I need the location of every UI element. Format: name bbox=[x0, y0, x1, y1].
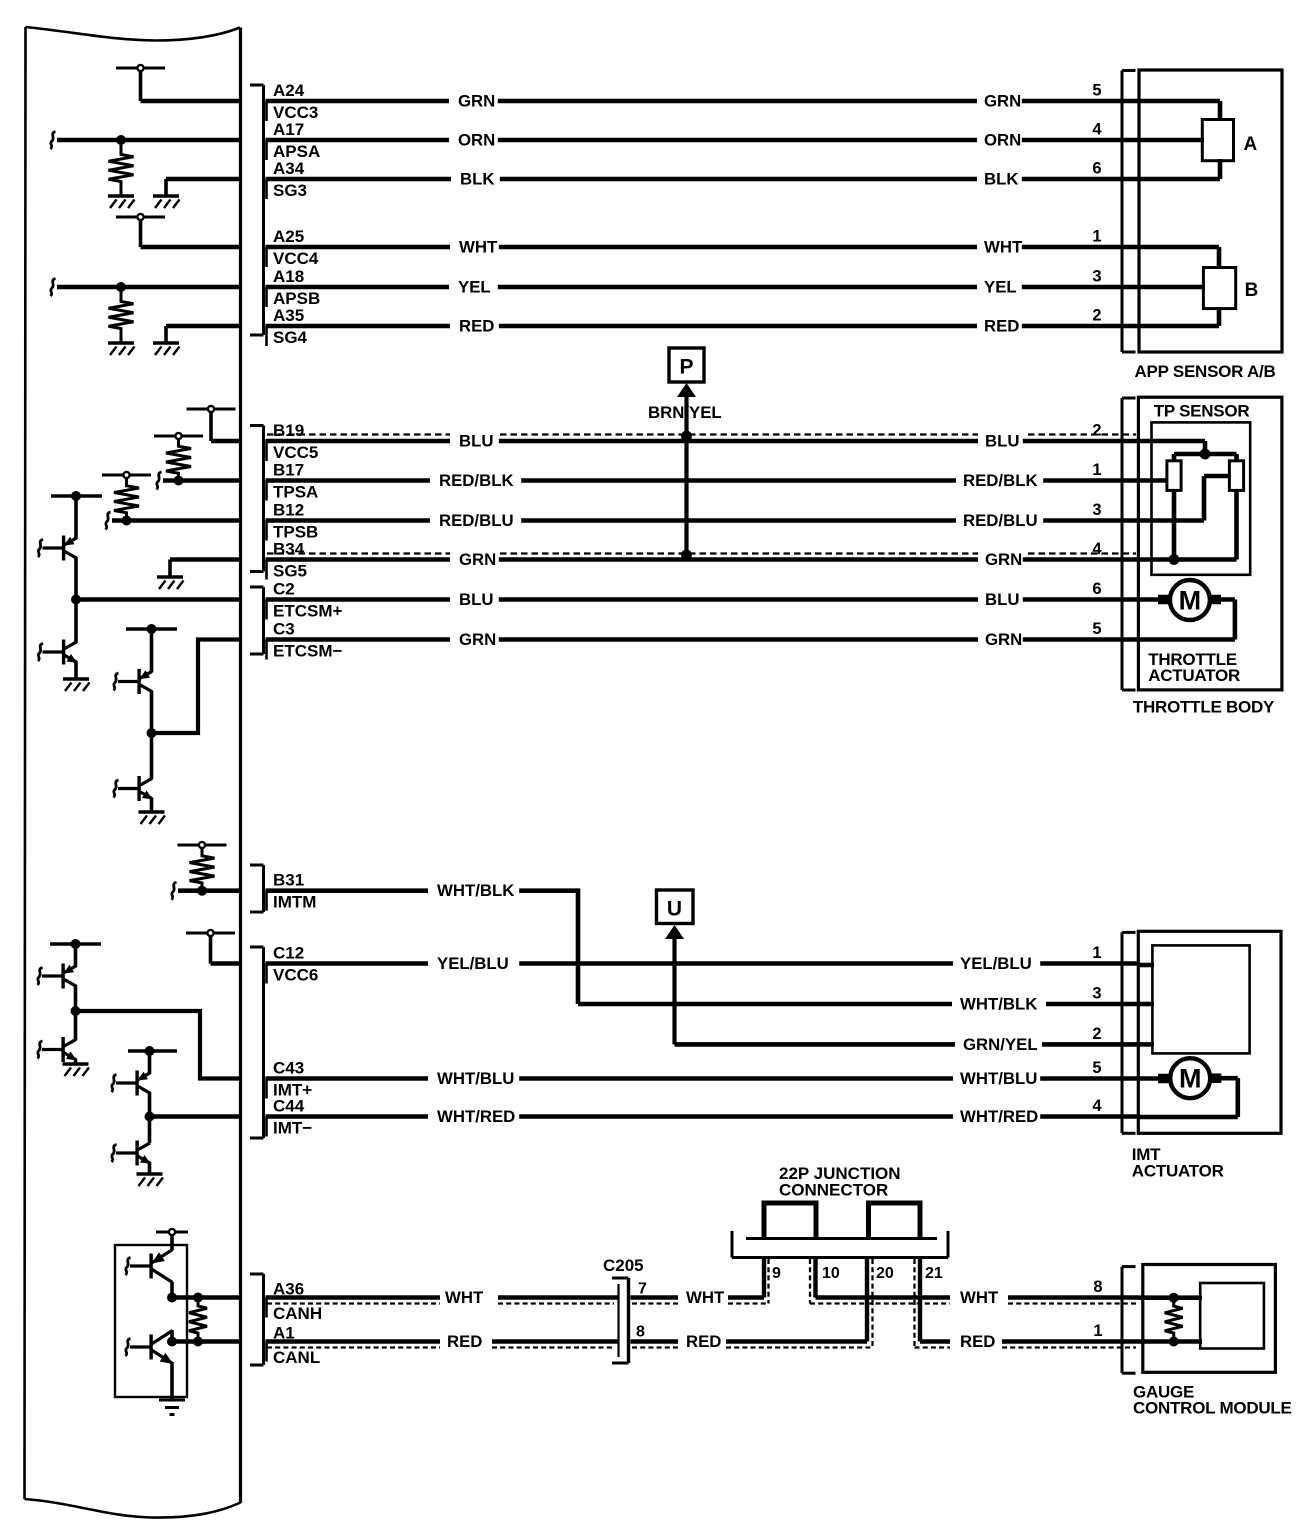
svg-text:4: 4 bbox=[1092, 540, 1102, 558]
svg-text:RED: RED bbox=[686, 1332, 721, 1351]
IMT motor M bbox=[1138, 1058, 1238, 1117]
gauge control module box bbox=[1143, 1265, 1276, 1373]
ECM pin bracket B31 bbox=[250, 865, 264, 912]
svg-text:WHT/BLU: WHT/BLU bbox=[960, 1069, 1037, 1088]
ground (APSA resistor) bbox=[108, 196, 135, 208]
svg-text:RED: RED bbox=[447, 1332, 482, 1351]
ECM trace TPSB bbox=[112, 518, 242, 523]
wire C3/ETCSM− GRN bbox=[266, 620, 1139, 661]
junction dot CANL bbox=[167, 1337, 177, 1347]
ECM trace CANH bbox=[172, 1295, 242, 1300]
junction pin 10 bbox=[816, 1258, 840, 1298]
svg-text:10: 10 bbox=[822, 1265, 840, 1282]
transistor Q5 (IMT+ high side) bbox=[38, 944, 77, 989]
caption IMT ACTUATOR bbox=[1132, 1145, 1224, 1181]
svg-text:BRN/YEL: BRN/YEL bbox=[648, 403, 722, 422]
junction dot IMTM bbox=[197, 886, 207, 896]
svg-text:A25: A25 bbox=[273, 227, 304, 246]
junction dot rail/Q5 bbox=[71, 939, 81, 949]
ECM trace APSB bbox=[57, 285, 242, 290]
junction dot ETCSM- node bbox=[147, 728, 157, 738]
svg-text:VCC6: VCC6 bbox=[273, 966, 318, 985]
svg-text:SG3: SG3 bbox=[273, 181, 307, 200]
resistor CAN terminator bbox=[189, 1298, 207, 1342]
svg-text:GRN: GRN bbox=[985, 630, 1022, 649]
svg-text:APP SENSOR A/B: APP SENSOR A/B bbox=[1135, 362, 1276, 381]
svg-text:IMT−: IMT− bbox=[273, 1119, 312, 1138]
ground (SG5) bbox=[157, 577, 184, 589]
transistor Q7 (IMT- high side) bbox=[112, 1051, 151, 1096]
resistor APSB pull-down bbox=[109, 287, 134, 343]
svg-text:A: A bbox=[1244, 134, 1258, 155]
svg-text:C205: C205 bbox=[603, 1256, 644, 1275]
transistor Q1 (ETCSM+ high side) bbox=[38, 496, 77, 561]
supply symbol (TPSB pull-up) bbox=[102, 472, 151, 478]
wire A17/APSA ORN bbox=[266, 120, 1139, 161]
label B bbox=[1245, 280, 1259, 301]
junction dot TPSB bbox=[122, 516, 132, 526]
wire B34/SG5 GRN bbox=[266, 540, 1139, 581]
svg-text:20: 20 bbox=[876, 1265, 894, 1282]
svg-text:RED: RED bbox=[960, 1332, 995, 1351]
hook TPSB lead bbox=[106, 512, 111, 530]
connector bracket (gauge module) bbox=[1122, 1267, 1136, 1374]
svg-text:M: M bbox=[1179, 1064, 1202, 1094]
junction pin 20 bbox=[867, 1258, 894, 1342]
svg-text:YEL/BLU: YEL/BLU bbox=[437, 954, 509, 973]
wire B17/TPSA RED/BLK bbox=[266, 461, 1139, 502]
junction dot TP return bbox=[1169, 554, 1180, 565]
arrow + BRN/YEL drain wire to P bbox=[648, 383, 722, 555]
APP sensor A/B box bbox=[1139, 70, 1282, 352]
wire A35/SG4 RED bbox=[266, 306, 1139, 347]
svg-text:ORN: ORN bbox=[984, 131, 1021, 150]
ECM pin bracket B19-SG5 bbox=[250, 426, 264, 572]
svg-text:WHT: WHT bbox=[984, 238, 1023, 257]
connector bracket (IMT actuator) bbox=[1122, 932, 1136, 1133]
svg-text:RED/BLK: RED/BLK bbox=[439, 471, 514, 490]
wires to sensor B bbox=[1138, 247, 1219, 326]
svg-text:BLU: BLU bbox=[459, 590, 494, 609]
transistor Q4 (ETCSM- low side) bbox=[114, 733, 153, 801]
ECM trace TPSA bbox=[163, 478, 242, 483]
ECM trace SG4 to ground bbox=[166, 326, 242, 343]
supply symbol (VCC3 pull-up rail) bbox=[116, 65, 165, 101]
svg-text:B: B bbox=[1245, 280, 1259, 301]
svg-text:4: 4 bbox=[1092, 121, 1102, 139]
svg-text:WHT/RED: WHT/RED bbox=[960, 1107, 1038, 1126]
ECM trace APSA bbox=[57, 138, 242, 143]
supply symbol (VCC5 rail) bbox=[187, 406, 236, 441]
junction dot CANH/terminator bbox=[193, 1293, 203, 1303]
junction dot gauge CANL bbox=[1169, 1337, 1179, 1347]
svg-text:5: 5 bbox=[1092, 82, 1101, 100]
wires into IMT block bbox=[1138, 965, 1154, 1044]
gauge CANH wire bbox=[1138, 1295, 1202, 1300]
svg-text:8: 8 bbox=[636, 1324, 645, 1341]
ground (Q6) bbox=[63, 1064, 90, 1076]
svg-text:A1: A1 bbox=[273, 1324, 295, 1343]
svg-text:YEL: YEL bbox=[458, 278, 491, 297]
ECM/PCM box (left, continued) bbox=[25, 27, 241, 1518]
resistor IMTM pull-up bbox=[190, 848, 215, 891]
svg-text:ETCSM−: ETCSM− bbox=[273, 642, 343, 661]
ground point box P bbox=[669, 348, 704, 382]
svg-text:RED: RED bbox=[459, 317, 494, 336]
ground (Q4) bbox=[139, 812, 166, 824]
svg-text:WHT/BLK: WHT/BLK bbox=[960, 995, 1037, 1014]
transistor Q3 (ETCSM- high side) bbox=[114, 629, 153, 694]
svg-text:1: 1 bbox=[1092, 944, 1101, 962]
svg-text:YEL/BLU: YEL/BLU bbox=[960, 954, 1032, 973]
wire Q2 emitter to ground bbox=[74, 661, 78, 679]
wire Q1 collector to ETCSM+ node bbox=[74, 557, 78, 600]
caption GAUGE CONTROL MODULE bbox=[1133, 1383, 1292, 1418]
svg-text:1: 1 bbox=[1093, 1322, 1102, 1340]
svg-text:BLU: BLU bbox=[985, 432, 1020, 451]
wire Q3 collector to ETCSM- node bbox=[150, 691, 154, 733]
svg-text:2: 2 bbox=[1092, 422, 1101, 440]
wire A36/CANH WHT bbox=[266, 1278, 1139, 1323]
wire C2/ETCSM+ BLU bbox=[266, 580, 1139, 621]
transistor Q2 (ETCSM+ low side) bbox=[38, 600, 77, 665]
junction dot gauge CANH bbox=[1169, 1293, 1179, 1303]
supply symbol (VCC6 rail) bbox=[186, 930, 235, 964]
ground (SG3) bbox=[153, 196, 180, 208]
ECM trace SG5 to ground bbox=[170, 560, 242, 578]
supply symbol (TPSA pull-up) bbox=[154, 433, 203, 439]
connector bracket (APP sensor) bbox=[1122, 71, 1136, 353]
hook IMTM lead bbox=[172, 882, 177, 900]
svg-text:A34: A34 bbox=[273, 159, 305, 178]
junction dot CANH bbox=[167, 1293, 177, 1303]
junction dot BRN/YEL on B19 shield bbox=[681, 431, 692, 442]
svg-text:6: 6 bbox=[1092, 580, 1101, 598]
TPSA wire into element 1 bbox=[1138, 478, 1168, 483]
svg-text:WHT/RED: WHT/RED bbox=[437, 1107, 515, 1126]
svg-text:7: 7 bbox=[638, 1281, 647, 1298]
svg-text:VCC5: VCC5 bbox=[273, 443, 318, 462]
resistor TPSA pull-up bbox=[166, 439, 191, 481]
svg-text:A36: A36 bbox=[273, 1280, 304, 1299]
gauge terminator resistor bbox=[1165, 1298, 1183, 1342]
svg-text:1: 1 bbox=[1092, 228, 1101, 246]
ECM pin bracket C12-C44 bbox=[250, 947, 264, 1138]
svg-text:5: 5 bbox=[1092, 1059, 1101, 1077]
svg-text:BLK: BLK bbox=[984, 170, 1019, 189]
wire Q4 emitter to ground bbox=[150, 798, 154, 812]
svg-text:B17: B17 bbox=[273, 461, 304, 480]
svg-text:A18: A18 bbox=[273, 267, 304, 286]
svg-text:CANH: CANH bbox=[273, 1304, 322, 1323]
svg-text:GRN/YEL: GRN/YEL bbox=[963, 1035, 1038, 1054]
junction dot TP feed bbox=[1200, 449, 1211, 460]
TP resistor element 2 bbox=[1229, 461, 1243, 491]
sensor element A bbox=[1202, 120, 1233, 161]
wire A1/CANL RED bbox=[266, 1322, 1139, 1367]
wire WHT/BLK elbow to IMT pin 3 bbox=[578, 888, 1138, 1013]
svg-text:21: 21 bbox=[925, 1265, 943, 1282]
svg-text:M: M bbox=[1179, 586, 1202, 616]
TP wiper wire bbox=[1138, 476, 1230, 521]
ECM trace to B19 bbox=[211, 439, 242, 444]
svg-text:SG5: SG5 bbox=[273, 562, 307, 581]
svg-text:B31: B31 bbox=[273, 871, 304, 890]
junction connector bus bar bbox=[732, 1231, 948, 1258]
wire C44/IMT− WHT/RED bbox=[266, 1097, 1139, 1138]
ECM trace to A25 bbox=[141, 245, 243, 250]
junction dot rail/Q1 bbox=[71, 491, 81, 501]
junction dot rail/Q3 bbox=[147, 624, 157, 634]
hook APSB lead bbox=[51, 279, 56, 297]
transistor Q6 (IMT+ low side) bbox=[38, 1011, 77, 1062]
svg-text:CONNECTOR: CONNECTOR bbox=[779, 1181, 888, 1200]
ECM trace IMTM bbox=[178, 888, 242, 893]
inline connector C205 bbox=[603, 1256, 647, 1363]
wire Q5 collector to IMT+ node bbox=[74, 985, 78, 1011]
svg-text:5: 5 bbox=[1092, 620, 1101, 638]
svg-text:BLU: BLU bbox=[985, 590, 1020, 609]
svg-text:VCC4: VCC4 bbox=[273, 249, 319, 268]
junction dot TPSA bbox=[174, 476, 184, 486]
caption THROTTLE ACTUATOR bbox=[1148, 650, 1240, 685]
throttle motor M bbox=[1138, 580, 1235, 640]
junction loop 9-10 bbox=[764, 1203, 816, 1238]
svg-text:U: U bbox=[667, 898, 682, 921]
svg-text:A24: A24 bbox=[273, 81, 305, 100]
wire C43/IMT+ WHT/BLU bbox=[266, 1059, 1139, 1100]
CAN transceiver block box bbox=[115, 1245, 187, 1397]
wire C12/VCC6 YEL/BLU bbox=[266, 944, 1139, 985]
ECM pin bracket C2-C3 bbox=[250, 587, 264, 654]
transistor Q8 (IMT- low side) bbox=[112, 1117, 151, 1166]
svg-text:WHT/BLU: WHT/BLU bbox=[437, 1069, 514, 1088]
caption THROTTLE BODY bbox=[1133, 698, 1275, 717]
ground (Q8) bbox=[137, 1174, 164, 1186]
wire A34/SG3 BLK bbox=[266, 159, 1139, 200]
wire Q8 emitter to ground bbox=[148, 1162, 152, 1174]
svg-text:C12: C12 bbox=[273, 944, 304, 963]
svg-text:WHT: WHT bbox=[686, 1288, 725, 1307]
svg-text:6: 6 bbox=[1092, 160, 1101, 178]
ground (Q2) bbox=[63, 679, 90, 691]
junction loop 20-21 bbox=[869, 1203, 921, 1238]
supply rail stub (ETCSM+ driver) bbox=[51, 494, 102, 497]
svg-text:GRN: GRN bbox=[459, 550, 496, 569]
svg-text:GRN: GRN bbox=[985, 550, 1022, 569]
TP sensor inner box bbox=[1152, 422, 1251, 574]
IMT inner block bbox=[1152, 945, 1249, 1053]
svg-text:ORN: ORN bbox=[458, 131, 495, 150]
ECM trace ETCSM- (elbow) bbox=[152, 640, 243, 734]
svg-text:SG4: SG4 bbox=[273, 328, 308, 347]
svg-text:A17: A17 bbox=[273, 120, 304, 139]
svg-text:BLK: BLK bbox=[460, 170, 495, 189]
ground (SG4) bbox=[153, 343, 180, 355]
svg-text:GRN: GRN bbox=[458, 92, 495, 111]
svg-text:RED: RED bbox=[984, 317, 1019, 336]
svg-text:8: 8 bbox=[1093, 1278, 1102, 1296]
ground point box U bbox=[657, 890, 694, 924]
junction pin 9 bbox=[764, 1258, 781, 1298]
junction pin 21 bbox=[920, 1258, 943, 1342]
svg-text:2: 2 bbox=[1092, 307, 1101, 325]
svg-text:TP SENSOR: TP SENSOR bbox=[1154, 402, 1250, 421]
TP sensor bottom return bbox=[1138, 489, 1237, 560]
IMT actuator box bbox=[1138, 931, 1281, 1133]
ECM trace ETCSM+ bbox=[76, 597, 242, 602]
svg-text:WHT: WHT bbox=[960, 1288, 999, 1307]
label A bbox=[1244, 134, 1258, 155]
supply rail stub (ETCSM- driver) bbox=[126, 627, 177, 630]
ECM pin bracket A24-SG4 bbox=[250, 85, 264, 335]
caption TP SENSOR bbox=[1154, 402, 1250, 421]
TP resistor element 1 bbox=[1167, 461, 1181, 491]
svg-text:IMTM: IMTM bbox=[273, 893, 316, 912]
svg-text:THROTTLE BODY: THROTTLE BODY bbox=[1133, 698, 1275, 717]
svg-text:3: 3 bbox=[1092, 501, 1101, 519]
connector bracket (throttle body) bbox=[1122, 398, 1136, 690]
junction dot ETCSM+ node bbox=[71, 595, 81, 605]
wire B12/TPSB RED/BLU bbox=[266, 501, 1139, 542]
svg-text:CANL: CANL bbox=[273, 1348, 320, 1367]
junction dot CANL/terminator bbox=[193, 1337, 203, 1347]
svg-text:9: 9 bbox=[772, 1265, 781, 1282]
svg-text:C43: C43 bbox=[273, 1059, 304, 1078]
junction dot IMT+ node bbox=[71, 1006, 81, 1016]
svg-text:WHT: WHT bbox=[445, 1288, 484, 1307]
wire A18/APSB YEL bbox=[266, 267, 1139, 308]
svg-text:ACTUATOR: ACTUATOR bbox=[1132, 1162, 1224, 1181]
svg-text:1: 1 bbox=[1092, 461, 1101, 479]
gauge CANL wire bbox=[1138, 1339, 1202, 1344]
supply rail stub (IMT- driver) bbox=[128, 1049, 177, 1052]
junction dot BRN/YEL on B34 shield bbox=[681, 550, 692, 561]
resistor APSA pull-down bbox=[109, 140, 134, 196]
sensor element B bbox=[1203, 268, 1235, 309]
svg-text:C2: C2 bbox=[273, 580, 295, 599]
hook TPSA lead bbox=[157, 472, 162, 490]
ECM trace IMT- bbox=[150, 1114, 243, 1119]
svg-text:WHT: WHT bbox=[459, 238, 498, 257]
svg-text:A35: A35 bbox=[273, 306, 304, 325]
arrow under U bbox=[665, 925, 684, 1044]
svg-text:YEL: YEL bbox=[984, 278, 1017, 297]
supply symbol (IMTM pull-up) bbox=[178, 842, 227, 848]
wire B19/VCC5 BLU bbox=[266, 421, 1139, 462]
shield dash line (B34 SG5) bbox=[267, 552, 1136, 554]
supply rail stub (IMT+ driver) bbox=[50, 942, 101, 945]
shield dash line (B19 BLU) bbox=[267, 433, 1136, 435]
wire GRN/YEL from ground point U to IMT pin 2 bbox=[675, 1025, 1139, 1054]
wire B31/IMTM WHT/BLK bbox=[266, 871, 579, 912]
junction dot rail/Q7 bbox=[145, 1046, 155, 1056]
svg-text:B12: B12 bbox=[273, 501, 304, 520]
ground (APSB resistor) bbox=[108, 343, 135, 355]
wires to sensor A bbox=[1138, 101, 1220, 179]
svg-text:B19: B19 bbox=[273, 421, 304, 440]
wire A25/VCC4 WHT bbox=[266, 227, 1139, 268]
svg-text:GRN: GRN bbox=[984, 92, 1021, 111]
supply symbol (VCC4 rail) bbox=[116, 214, 165, 247]
svg-text:C44: C44 bbox=[273, 1097, 305, 1116]
ECM trace IMT+ (elbow) bbox=[76, 1011, 243, 1079]
svg-text:4: 4 bbox=[1092, 1097, 1102, 1115]
transistor Q10 (CANL driver) bbox=[126, 1330, 174, 1364]
svg-text:B34: B34 bbox=[273, 540, 305, 559]
TP sensor top feed bbox=[1138, 441, 1237, 462]
ECM trace to C12 bbox=[211, 961, 243, 966]
supply symbol (CAN driver) bbox=[156, 1229, 188, 1250]
ECM trace CANL bbox=[172, 1339, 242, 1344]
svg-text:CONTROL MODULE: CONTROL MODULE bbox=[1133, 1399, 1292, 1418]
svg-text:RED/BLU: RED/BLU bbox=[439, 511, 514, 530]
earth ground (CAN) bbox=[159, 1400, 185, 1415]
svg-text:WHT/BLK: WHT/BLK bbox=[437, 881, 514, 900]
dash line CANH bbox=[267, 1302, 1136, 1304]
gauge inner block bbox=[1200, 1283, 1264, 1349]
svg-text:ETCSM+: ETCSM+ bbox=[273, 602, 343, 621]
junction dot APSB bbox=[116, 282, 126, 292]
wire Q7 collector to IMT- node bbox=[148, 1092, 152, 1117]
wire A24/VCC3 GRN bbox=[266, 81, 1139, 122]
ECM trace to A24 bbox=[141, 99, 243, 104]
resistor TPSB pull-up bbox=[114, 478, 139, 521]
junction dot IMT- node bbox=[145, 1112, 155, 1122]
ECM trace SG3 to ground bbox=[166, 179, 242, 196]
svg-text:2: 2 bbox=[1092, 1025, 1101, 1043]
dash line CANL bbox=[267, 1346, 1136, 1348]
svg-text:P: P bbox=[679, 356, 693, 379]
wire Q9 collector to CANH bbox=[170, 1282, 174, 1298]
svg-text:3: 3 bbox=[1092, 985, 1101, 1003]
svg-text:TPSA: TPSA bbox=[273, 483, 318, 502]
hook APSA lead bbox=[51, 132, 56, 150]
junction dot APSA bbox=[116, 135, 126, 145]
svg-text:GRN: GRN bbox=[459, 630, 496, 649]
svg-text:BLU: BLU bbox=[459, 432, 494, 451]
svg-text:ACTUATOR: ACTUATOR bbox=[1148, 666, 1240, 685]
svg-text:3: 3 bbox=[1092, 268, 1101, 286]
throttle body box bbox=[1138, 397, 1282, 690]
svg-text:C3: C3 bbox=[273, 620, 295, 639]
wire Q10 emitter to ground bbox=[170, 1362, 174, 1400]
svg-text:RED/BLU: RED/BLU bbox=[963, 511, 1038, 530]
caption APP SENSOR A/B bbox=[1135, 362, 1276, 381]
transistor Q9 (CANH driver) bbox=[126, 1250, 173, 1283]
svg-text:RED/BLK: RED/BLK bbox=[963, 471, 1038, 490]
ECM pin bracket A36-A1 bbox=[250, 1274, 264, 1365]
wire Q6 emitter to ground bbox=[74, 1059, 78, 1064]
caption 22P JUNCTION CONNECTOR bbox=[779, 1164, 901, 1200]
junction dashes bbox=[769, 1259, 915, 1348]
